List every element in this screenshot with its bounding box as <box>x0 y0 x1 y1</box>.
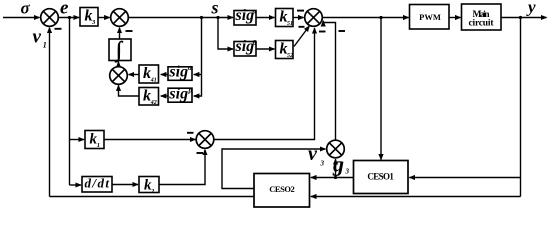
block k52 <box>276 41 294 59</box>
wire e branch down <box>69 18 71 186</box>
wire k3 to J2 <box>98 17 110 19</box>
wire J5 to integrator <box>118 62 120 67</box>
node u branch <box>379 16 382 19</box>
block sig-beta-top <box>234 42 256 57</box>
svg-text:PWM: PWM <box>419 12 441 22</box>
input arrow sigma <box>3 17 40 19</box>
svg-text:circuit: circuit <box>469 18 495 28</box>
svg-text:CESO1: CESO1 <box>367 172 394 182</box>
minus diagonal input <box>299 26 305 28</box>
wire sig-b-mid to k42 <box>161 95 168 97</box>
minus bridge input <box>339 30 346 32</box>
svg-text:42: 42 <box>150 100 157 106</box>
svg-text:d/dt: d/dt <box>85 176 110 191</box>
wire v1 vertical into J1 <box>49 28 51 197</box>
node y branch <box>519 16 522 19</box>
wire s down to sig-b-top <box>218 18 233 50</box>
svg-text:sig: sig <box>235 38 255 55</box>
wire to d/dt <box>70 184 82 186</box>
block CESO2 <box>254 174 310 208</box>
minus PD input <box>319 31 326 33</box>
wire k52 diagonal to J4 <box>294 26 309 47</box>
wire sig-a-mid to k41 <box>161 74 168 76</box>
summing junction J6 v3 <box>327 140 345 158</box>
wire v3 junction up bridge into J4 <box>323 21 335 140</box>
summing junction J1 <box>41 9 59 27</box>
node g3 <box>334 176 337 179</box>
block CESO1 <box>354 161 409 194</box>
svg-text:52: 52 <box>287 53 293 59</box>
wire y into CESO1 right <box>409 177 520 179</box>
svg-text:σ: σ <box>21 0 31 18</box>
wire v1 horizontal from CESO2 <box>50 196 255 198</box>
svg-text:1: 1 <box>43 41 47 50</box>
wire k51 to J4 <box>293 17 304 19</box>
block k1 <box>85 131 104 149</box>
svg-text:k: k <box>143 88 151 105</box>
minus k2 input <box>197 152 204 154</box>
block k42 <box>139 88 159 106</box>
svg-text:v: v <box>33 27 42 48</box>
wire to k1 <box>70 139 85 141</box>
svg-text:sig: sig <box>168 63 188 80</box>
svg-text:1: 1 <box>97 142 100 149</box>
block k2 <box>139 177 159 193</box>
wire J4 to PWM <box>323 17 409 19</box>
summing junction J5 <box>110 67 128 85</box>
block PWM <box>410 5 450 30</box>
svg-text:β: β <box>252 39 257 47</box>
wire g3 from CESO1 to CESO2 <box>311 177 354 179</box>
svg-text:3: 3 <box>345 168 350 176</box>
node s dropper <box>200 16 203 19</box>
summing junction J2 <box>111 9 129 27</box>
wire PD term up into J4 <box>214 28 315 140</box>
svg-text:y: y <box>526 0 536 17</box>
svg-text:CESO2: CESO2 <box>269 184 295 194</box>
svg-text:sig: sig <box>168 85 188 102</box>
svg-text:51: 51 <box>287 21 293 27</box>
node s <box>216 16 219 19</box>
block Main circuit <box>462 4 502 30</box>
minus at J1 bottom input <box>55 28 62 30</box>
node e branch <box>68 16 71 19</box>
wire output y <box>501 17 547 19</box>
wire g3 up into v3 junction <box>335 159 337 178</box>
wire u down into CESO1 <box>380 18 382 160</box>
block sig-alpha-top <box>234 11 256 26</box>
svg-text:v: v <box>308 143 318 165</box>
svg-text:3: 3 <box>320 160 325 168</box>
wire k1 to J3 <box>104 139 195 141</box>
wire d/dt to k2 <box>112 184 138 186</box>
wire sig-b-top to k52 <box>256 48 274 50</box>
wire s to sig-a-mid <box>194 74 202 76</box>
wire integrator to J2 <box>119 28 121 39</box>
svg-text:3: 3 <box>91 19 96 26</box>
block sig-alpha-mid <box>168 67 192 81</box>
svg-text:s: s <box>211 0 219 18</box>
wire s dropper to mid sig blocks <box>194 18 202 97</box>
wire y feedback down <box>520 18 522 197</box>
svg-text:β: β <box>188 87 193 95</box>
wire k42 to J5 <box>119 85 140 96</box>
minus at J2 bottom input <box>126 30 133 32</box>
block d/dt <box>82 177 112 193</box>
svg-text:2: 2 <box>150 188 155 195</box>
block k41 <box>139 65 159 83</box>
minus k1 input <box>187 132 194 134</box>
summing junction J4 <box>305 9 323 27</box>
block k3 <box>80 8 98 27</box>
summing junction J3 <box>196 131 214 149</box>
svg-text:k: k <box>143 65 151 82</box>
wire v3 from CESO2 into J6 <box>222 149 325 189</box>
wire y feedback bottom into CESO2 <box>311 196 521 198</box>
wire J2 to sig-a-top <box>129 17 234 19</box>
wire PWM to Main circuit <box>449 17 461 19</box>
wire k2 up to J3 <box>159 150 205 185</box>
svg-text:∫: ∫ <box>114 37 124 63</box>
minus k51 input <box>297 10 304 12</box>
block sig-beta-mid <box>168 88 192 102</box>
svg-text:α: α <box>188 64 192 72</box>
svg-text:41: 41 <box>150 77 157 83</box>
integrator block <box>109 39 131 61</box>
svg-text:e: e <box>60 0 69 19</box>
svg-text:sig: sig <box>235 7 255 24</box>
wire e to k3 <box>59 17 80 19</box>
svg-text:α: α <box>253 8 257 16</box>
block k51 <box>276 9 294 27</box>
svg-text:g: g <box>332 151 344 176</box>
wire sig-a-top to k51 <box>256 17 274 19</box>
wire k41 to J5 <box>129 74 139 76</box>
